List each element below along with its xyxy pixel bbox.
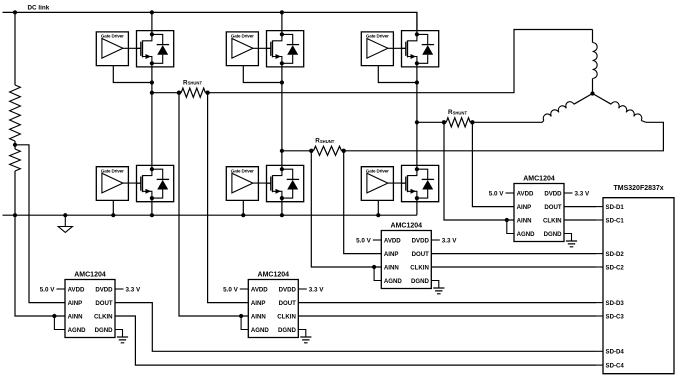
- wire: U2 AINN-AGND tie: [241, 316, 248, 330]
- svg-text:AMC1204: AMC1204: [258, 271, 290, 278]
- wire: U3H output to Q3H gate: [388, 47, 406, 49]
- wire: DC- bus: [3, 214, 417, 216]
- wire: 3.3 V stub U3: [431, 239, 440, 241]
- wire: phase 2 to shunt 2: [282, 150, 311, 152]
- svg-text:AGND: AGND: [517, 231, 536, 238]
- pin SD-C3 of TMS320F2837x: [596, 315, 603, 317]
- ground: U4 DGND: [564, 234, 572, 242]
- svg-text:DVDD: DVDD: [95, 286, 113, 293]
- resistor RSHUNT2 (shunt leg 2): [314, 146, 342, 155]
- ground: U1 DGND: [115, 330, 123, 338]
- svg-text:DVDD: DVDD: [544, 190, 562, 197]
- svg-text:DGND: DGND: [411, 278, 430, 285]
- wire: 3.3 V stub U2: [298, 288, 307, 290]
- ground: U3 DGND: [431, 281, 439, 289]
- svg-text:SD-C2: SD-C2: [606, 264, 625, 271]
- svg-text:AVDD: AVDD: [517, 190, 534, 197]
- wire: shunt 1 left sense to U2 AINN: [179, 93, 248, 316]
- wire: 3.3 V stub U4: [564, 192, 573, 194]
- svg-text:AGND: AGND: [68, 327, 87, 334]
- wire: U1 DOUT to SD-D4: [115, 303, 596, 352]
- svg-text:CLKIN: CLKIN: [410, 264, 429, 271]
- node: U4 AINN tie: [505, 218, 509, 222]
- svg-text:SD-C1: SD-C1: [606, 217, 625, 224]
- op-amp U2 AMC1204 (delta-sigma modulator 2): [248, 280, 298, 338]
- wire: DC- to AMC1 AINN: [15, 215, 65, 316]
- svg-text:AVDD: AVDD: [251, 286, 268, 293]
- transistor Q2H with freewheel diode (top IGBT leg 2): [267, 31, 304, 67]
- pin SD-C2 of TMS320F2837x: [596, 266, 603, 268]
- node: phase 3 junction: [415, 120, 419, 124]
- node: DC- / leg1 emitter: [150, 213, 154, 217]
- ground: U2 DGND: [298, 330, 306, 338]
- node: DC+ / leg2 collector: [280, 10, 284, 14]
- svg-text:SD-D1: SD-D1: [606, 204, 625, 211]
- svg-text:3.3 V: 3.3 V: [126, 286, 142, 293]
- wire: R1-R2 link: [14, 141, 16, 149]
- svg-text:5.0 V: 5.0 V: [223, 286, 239, 293]
- svg-text:5.0 V: 5.0 V: [356, 237, 372, 244]
- wire: U2H return to emitter: [243, 66, 282, 83]
- wire: DC+ to Q1H collector: [151, 12, 153, 34]
- wire: phase C to motor: [344, 122, 664, 151]
- wire: divider tap to AMC1 AINP: [15, 145, 65, 303]
- svg-text:Gate Driver: Gate Driver: [101, 34, 124, 39]
- svg-text:Gate Driver: Gate Driver: [366, 34, 389, 39]
- wire: 5.0 V stub U3: [373, 239, 382, 241]
- wire: U4 CLKIN to SD-C1: [564, 219, 596, 221]
- svg-text:TMS320F2837x: TMS320F2837x: [614, 185, 664, 192]
- wire: U1H return to emitter: [113, 66, 152, 83]
- svg-text:3.3 V: 3.3 V: [309, 286, 325, 293]
- node: DC- / leg3 driver return: [376, 213, 380, 217]
- node: U2H return junction: [280, 80, 284, 84]
- node: DC- / leg1 driver return: [111, 213, 115, 217]
- svg-text:SD-D4: SD-D4: [606, 349, 625, 356]
- svg-text:AVDD: AVDD: [384, 237, 401, 244]
- resistor RSHUNT1 (shunt leg 1): [181, 88, 205, 97]
- inductor: motor winding A (top): [592, 30, 594, 43]
- node: DC- / divider: [13, 213, 17, 217]
- node: U3H return junction: [415, 80, 419, 84]
- chip TMS320F2837x: [603, 198, 674, 374]
- pin SD-D1 of TMS320F2837x: [596, 206, 603, 208]
- svg-text:SD-D2: SD-D2: [606, 251, 625, 258]
- wire: U1 AINN-AGND tie: [54, 316, 65, 330]
- wire: U2 CLKIN to SD-C3: [298, 315, 596, 317]
- node: DC- / leg2 emitter: [280, 213, 284, 217]
- svg-text:AINN: AINN: [251, 313, 266, 320]
- wire: Q1H emitter to phase node 1: [151, 63, 153, 92]
- wire: phase 3 to shunt 3: [417, 121, 444, 123]
- wire: DC+ to Q2H collector: [281, 12, 283, 34]
- svg-text:AMC1204: AMC1204: [74, 271, 106, 278]
- wire: U3H return to emitter: [378, 66, 417, 83]
- svg-text:SD-C3: SD-C3: [606, 313, 625, 320]
- svg-text:5.0 V: 5.0 V: [489, 190, 505, 197]
- resistor RSHUNT3 (shunt leg 3): [446, 118, 470, 127]
- wire: Q1L emitter to DC-: [151, 198, 153, 215]
- node: U1H return junction: [150, 80, 154, 84]
- gate driver U3L (bottom leg 3): [361, 167, 393, 201]
- wire: shunt 2 left sense to U3 AINN: [311, 151, 381, 267]
- svg-text:AINN: AINN: [384, 264, 399, 271]
- node: phase 1 junction: [150, 91, 154, 95]
- svg-text:AINP: AINP: [384, 251, 399, 258]
- svg-text:AINP: AINP: [251, 300, 266, 307]
- inductor: motor winding C (right): [593, 94, 612, 105]
- svg-text:3.3 V: 3.3 V: [442, 237, 458, 244]
- svg-text:DOUT: DOUT: [279, 300, 297, 307]
- node: shunt 2 right sense: [342, 149, 346, 153]
- svg-text:AGND: AGND: [384, 278, 403, 285]
- node: phase 2 junction: [280, 149, 284, 153]
- svg-text:AMC1204: AMC1204: [523, 175, 555, 182]
- wire: 5.0 V stub U4: [506, 192, 515, 194]
- svg-text:Gate Driver: Gate Driver: [231, 34, 254, 39]
- wire: U4 AINN-AGND tie: [507, 220, 514, 234]
- svg-text:AINP: AINP: [68, 300, 83, 307]
- svg-text:Gate Driver: Gate Driver: [231, 168, 254, 173]
- svg-text:SHUNT: SHUNT: [453, 110, 468, 115]
- node: DC+ / divider: [13, 10, 17, 14]
- wire: U1L return to DC-: [112, 200, 114, 215]
- svg-text:3.3 V: 3.3 V: [575, 190, 591, 197]
- wire: U3 DOUT to SD-D2: [431, 253, 596, 255]
- wire: U3L return to DC-: [377, 200, 379, 215]
- svg-text:AMC1204: AMC1204: [391, 222, 423, 229]
- wire: phase B to motor: [472, 121, 542, 123]
- wire: phase node 1 to Q1L collector: [151, 93, 153, 170]
- svg-text:DOUT: DOUT: [412, 251, 430, 258]
- node: motor star point: [590, 91, 594, 95]
- pin SD-D3 of TMS320F2837x: [596, 302, 603, 304]
- wire: shunt 1 right sense to U2 AINP: [208, 93, 249, 303]
- transistor Q2L with freewheel diode (bottom IGBT leg 2): [267, 165, 304, 201]
- wire: phase 1 to shunt 1: [152, 92, 179, 94]
- wire: phase node 2 to Q2L collector: [281, 151, 283, 169]
- node: shunt 3 right sense: [470, 120, 474, 124]
- wire: phase A to motor: [208, 30, 593, 93]
- svg-text:AINN: AINN: [68, 313, 83, 320]
- svg-text:SD-C4: SD-C4: [606, 362, 625, 369]
- wire: U1L output to Q1L gate: [123, 182, 141, 184]
- wire: DC+ bus: [3, 12, 418, 30]
- node: shunt 1 right sense: [205, 91, 209, 95]
- wire: U2 DOUT to SD-D3: [298, 302, 596, 304]
- svg-text:AINP: AINP: [517, 204, 532, 211]
- pin SD-C4 of TMS320F2837x: [596, 364, 603, 366]
- svg-text:CLKIN: CLKIN: [277, 313, 296, 320]
- svg-text:DOUT: DOUT: [544, 204, 562, 211]
- pin SD-D2 of TMS320F2837x: [596, 253, 603, 255]
- wire: 5.0 V stub U1: [57, 288, 66, 290]
- wire: U1H output to Q1H gate: [123, 47, 141, 49]
- svg-text:DGND: DGND: [95, 327, 114, 334]
- svg-text:AVDD: AVDD: [68, 286, 85, 293]
- wire: Q3H emitter to phase node 3: [416, 63, 418, 122]
- svg-text:5.0 V: 5.0 V: [40, 286, 56, 293]
- wire: U1 CLKIN to SD-C4: [115, 316, 596, 365]
- svg-text:DC link: DC link: [28, 4, 50, 11]
- node: DC+ / leg1 collector: [150, 10, 154, 14]
- svg-text:SD-D3: SD-D3: [606, 300, 625, 307]
- wire: 3.3 V stub U1: [115, 288, 124, 290]
- svg-text:SHUNT: SHUNT: [188, 81, 203, 86]
- op-amp U1 AMC1204 (delta-sigma modulator 1): [65, 280, 115, 338]
- svg-text:DVDD: DVDD: [412, 237, 430, 244]
- wire: DC+ corner to Q3H collector: [416, 12, 418, 34]
- gate driver U2H (top leg 2): [226, 32, 258, 66]
- wire: shunt 3 left sense to U4 AINN: [444, 122, 514, 220]
- wire: shunt 2 right sense to U3 AINP: [344, 151, 382, 254]
- transistor Q1H with freewheel diode (top IGBT leg 1): [137, 31, 174, 67]
- node: U3 AINN tie: [372, 265, 376, 269]
- gate driver U2L (bottom leg 2): [226, 167, 258, 201]
- wire: U3 AINN-AGND tie: [374, 267, 381, 281]
- ground: DC- reference (open triangle): [58, 215, 72, 232]
- node: shunt 1 left sense: [177, 91, 181, 95]
- svg-text:DGND: DGND: [278, 327, 297, 334]
- wire: divider top: [14, 12, 16, 85]
- svg-text:DOUT: DOUT: [95, 300, 113, 307]
- wire: Q2H emitter to phase node 2: [281, 63, 283, 151]
- svg-text:Gate Driver: Gate Driver: [101, 168, 124, 173]
- node: U2 AINN tie: [239, 314, 243, 318]
- wire: U2H output to Q2H gate: [253, 47, 271, 49]
- resistor R2 (divider bottom): [10, 149, 21, 171]
- resistor R1 (divider top): [10, 85, 21, 141]
- wire: U3 CLKIN to SD-C2: [431, 266, 596, 268]
- node: DC- / ground: [63, 213, 67, 217]
- gate driver U1H (top leg 1): [96, 32, 128, 66]
- wire: divider bottom to DC-: [14, 171, 16, 215]
- wire: Q3L emitter to DC-: [416, 198, 418, 215]
- svg-text:SHUNT: SHUNT: [320, 139, 335, 144]
- transistor Q3L with freewheel diode (bottom IGBT leg 3): [402, 165, 439, 201]
- wire: U2L output to Q2L gate: [253, 182, 271, 184]
- gate driver U3H (top leg 3): [361, 32, 393, 66]
- svg-text:AINN: AINN: [517, 217, 532, 224]
- svg-text:CLKIN: CLKIN: [94, 313, 113, 320]
- gate driver U1L (bottom leg 1): [96, 167, 128, 201]
- transistor Q3H with freewheel diode (top IGBT leg 3): [402, 31, 439, 67]
- wire: U2L return to DC-: [242, 200, 244, 215]
- transistor Q1L with freewheel diode (bottom IGBT leg 1): [137, 165, 174, 201]
- node: shunt 3 left sense: [442, 120, 446, 124]
- svg-text:AGND: AGND: [251, 327, 270, 334]
- op-amp U3 AMC1204 (delta-sigma modulator 3): [381, 231, 431, 289]
- svg-text:DVDD: DVDD: [279, 286, 297, 293]
- op-amp U4 AMC1204 (delta-sigma modulator 4): [514, 184, 564, 242]
- node: divider tap: [13, 143, 17, 147]
- wire: phase node 3 to Q3L collector: [416, 122, 418, 169]
- svg-text:CLKIN: CLKIN: [543, 217, 562, 224]
- node: DC- / leg2 driver return: [241, 213, 245, 217]
- wire: U4 DOUT to SD-D1: [564, 206, 596, 208]
- wire: shunt 3 right sense to U4 AINP: [472, 122, 514, 206]
- svg-text:Gate Driver: Gate Driver: [366, 168, 389, 173]
- pin SD-D4 of TMS320F2837x: [596, 350, 603, 352]
- wire: 5.0 V stub U2: [240, 288, 249, 290]
- pin SD-C1 of TMS320F2837x: [596, 219, 603, 221]
- svg-text:DGND: DGND: [544, 231, 563, 238]
- node: U1 AINN tie: [52, 314, 56, 318]
- node: shunt 2 left sense: [309, 149, 313, 153]
- wire: U3L output to Q3L gate: [388, 182, 406, 184]
- inductor: motor winding B (left): [574, 94, 593, 105]
- wire: Q2L emitter to DC-: [281, 198, 283, 215]
